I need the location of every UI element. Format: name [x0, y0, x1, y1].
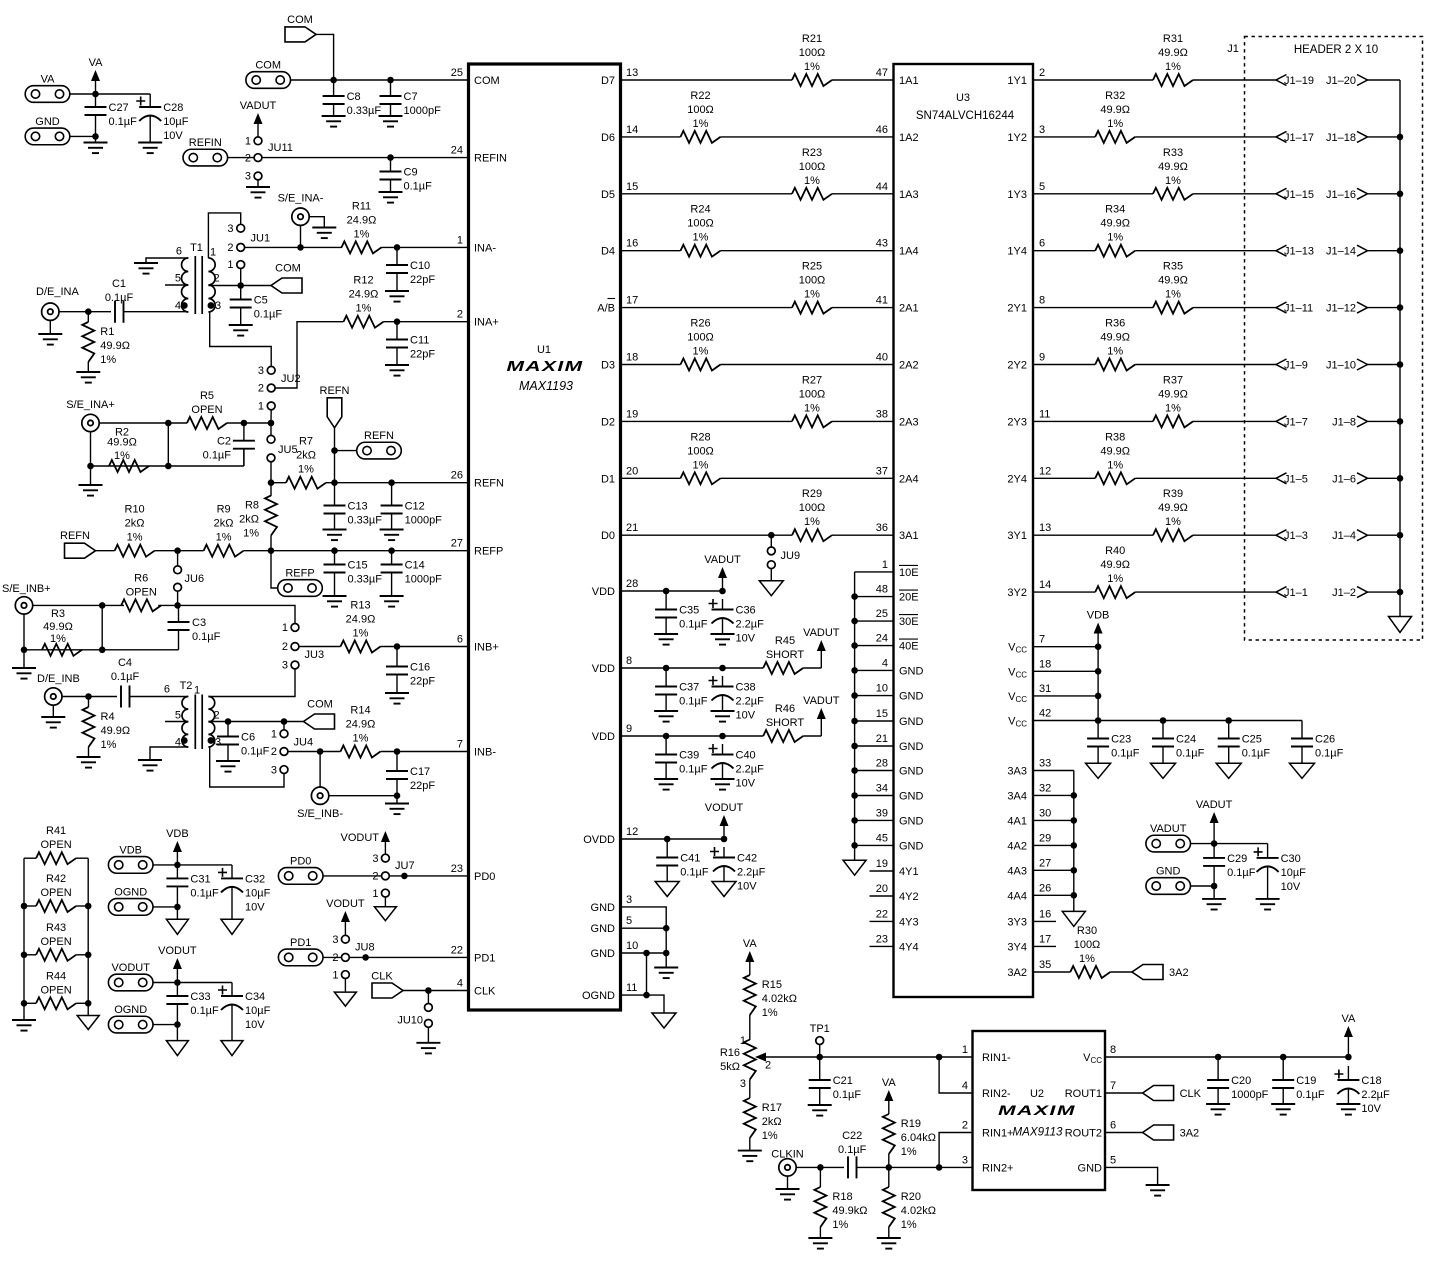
- svg-text:C1: C1: [112, 278, 126, 290]
- svg-text:7: 7: [1039, 634, 1045, 646]
- svg-text:0.1µF: 0.1µF: [203, 450, 232, 462]
- wire GND pad to C29 bottom: [1191, 885, 1215, 887]
- resistor R18: [814, 1187, 867, 1231]
- svg-text:49.9Ω: 49.9Ω: [1100, 218, 1130, 230]
- junction U3 bus row 9: [851, 792, 858, 799]
- svg-text:40: 40: [876, 352, 888, 364]
- svg-text:OPEN: OPEN: [191, 404, 222, 416]
- svg-text:VODUT: VODUT: [326, 898, 365, 910]
- svg-text:PD1: PD1: [290, 937, 311, 949]
- svg-text:C5: C5: [254, 295, 268, 307]
- svg-text:49.9Ω: 49.9Ω: [1158, 502, 1188, 514]
- svg-text:21: 21: [626, 522, 638, 534]
- pad PD1: [278, 937, 323, 966]
- svg-text:C13: C13: [348, 501, 368, 513]
- pad REFN: [357, 430, 402, 459]
- jumper JU6: [174, 566, 204, 591]
- wire JU1 pin 1 to T1 pin 2 node: [240, 269, 242, 286]
- svg-text:3: 3: [215, 300, 221, 312]
- svg-text:5: 5: [626, 915, 632, 927]
- svg-text:22pF: 22pF: [410, 349, 435, 361]
- wire U3 OE/GND bus: [854, 572, 856, 860]
- wire U3 Vcc stub y695.9: [1033, 695, 1098, 697]
- svg-text:PD1: PD1: [474, 952, 495, 964]
- wire U3 bus stub row 10: [855, 819, 894, 821]
- svg-text:J1–13: J1–13: [1284, 246, 1314, 258]
- wire U3 Vcc42 row: [1033, 720, 1302, 722]
- wire D/E_INB ground stub: [52, 705, 54, 717]
- svg-text:1%: 1%: [804, 289, 820, 301]
- svg-text:R27: R27: [802, 374, 822, 386]
- capacitor C11 22pF: [386, 322, 435, 365]
- wire U3 bus stub row 0: [855, 571, 894, 573]
- svg-text:VA: VA: [743, 938, 758, 950]
- svg-text:R34: R34: [1105, 204, 1125, 216]
- svg-text:1000pF: 1000pF: [1231, 1089, 1269, 1101]
- ground C40 ground: [711, 779, 735, 790]
- wire to S/E_INB+ ground: [23, 650, 25, 668]
- svg-text:4Y2: 4Y2: [899, 891, 919, 903]
- svg-text:J1–9: J1–9: [1284, 360, 1308, 372]
- wire 3Y4 stub: [1033, 945, 1056, 947]
- svg-text:R45: R45: [775, 635, 795, 647]
- IC U3 GND pin labels: [876, 657, 924, 852]
- capacitor C37 0.1uF: [655, 668, 708, 711]
- svg-text:5: 5: [175, 710, 181, 722]
- capacitor C9 0.1uF: [380, 158, 433, 193]
- svg-text:49.9Ω: 49.9Ω: [101, 725, 131, 737]
- svg-text:R44: R44: [46, 970, 66, 982]
- svg-text:CLK: CLK: [1180, 1088, 1202, 1100]
- svg-text:0.1µF: 0.1µF: [1111, 748, 1140, 760]
- svg-text:1%: 1%: [1107, 459, 1123, 471]
- svg-text:24: 24: [451, 145, 463, 157]
- junction R5 left: [165, 420, 172, 427]
- svg-text:44: 44: [876, 181, 888, 193]
- wire U3 1Y row 4 to R35: [1033, 307, 1153, 309]
- svg-text:R21: R21: [802, 33, 822, 45]
- ground C39 ground: [654, 779, 678, 790]
- resistor R1: [82, 322, 130, 366]
- svg-text:R31: R31: [1163, 33, 1183, 45]
- svg-text:49.9Ω: 49.9Ω: [1158, 161, 1188, 173]
- svg-text:1A3: 1A3: [899, 189, 919, 201]
- ground JU10 ground: [416, 1043, 440, 1054]
- svg-text:8: 8: [1039, 295, 1045, 307]
- svg-text:2kΩ: 2kΩ: [214, 518, 234, 530]
- svg-text:J1–15: J1–15: [1284, 189, 1314, 201]
- svg-text:100Ω: 100Ω: [799, 161, 826, 173]
- header J1 right arrow J1&#8211;16: [1326, 188, 1367, 201]
- junction REFIN/C9: [387, 154, 394, 161]
- svg-text:13: 13: [626, 67, 638, 79]
- resistor R26: [681, 318, 721, 371]
- jumper JU1: [227, 223, 270, 271]
- wire R7 to U1 pin 26: [326, 482, 469, 484]
- wire T1 pin 2 to COM flag: [208, 285, 271, 287]
- wire S/E_INA+ lower rail: [91, 432, 244, 466]
- jumper JU11: [245, 135, 293, 182]
- ground C38 ground: [711, 711, 735, 722]
- svg-text:0.1µF: 0.1µF: [404, 181, 433, 193]
- pad OGND (VDB): [108, 886, 153, 915]
- junction J1 rail row 5: [1397, 361, 1404, 368]
- wire U3 bus stub row 5: [855, 695, 894, 697]
- svg-text:C30: C30: [1281, 853, 1301, 865]
- svg-text:0.1µF: 0.1µF: [241, 746, 270, 758]
- ground C31 ground: [166, 919, 188, 934]
- svg-text:1%: 1%: [1165, 402, 1181, 414]
- svg-text:18: 18: [626, 352, 638, 364]
- wire ladder row R41 left: [24, 857, 36, 859]
- wire ladder row R42 right: [76, 905, 88, 907]
- power VODUT arrow above JU7: [341, 831, 390, 854]
- power VDB arrow: [166, 828, 189, 865]
- power VADUT arrow above JU11: [240, 100, 277, 137]
- svg-text:4: 4: [175, 300, 181, 312]
- junction JU10: [425, 987, 432, 994]
- resistor R20: [883, 1187, 936, 1231]
- svg-text:1%: 1%: [101, 739, 117, 751]
- junction J1 rail row 8: [1397, 532, 1404, 539]
- svg-text:C10: C10: [410, 260, 430, 272]
- junction 3A/4A bus y820.4: [1071, 817, 1078, 824]
- connector D/E_INB: [37, 673, 80, 705]
- wire OGND pad to C33 bottom: [153, 1024, 177, 1026]
- wire U3 4Y stub y871: [870, 870, 894, 872]
- svg-text:100Ω: 100Ω: [687, 332, 714, 344]
- svg-text:GND: GND: [591, 902, 616, 914]
- svg-text:10µF: 10µF: [245, 1005, 271, 1017]
- ground T1 pin 6 ground: [134, 263, 158, 274]
- svg-text:2: 2: [372, 871, 378, 883]
- wire CLK flag to U1 pin 4: [403, 990, 469, 992]
- wire U3 1Y row 8 to R39: [1033, 534, 1153, 536]
- connector S/E_INA+: [66, 399, 115, 432]
- svg-text:R39: R39: [1163, 488, 1183, 500]
- svg-text:JU4: JU4: [294, 737, 314, 749]
- capacitor C35 0.1uF: [655, 591, 708, 634]
- wire U2 GND to ground: [1105, 1167, 1158, 1185]
- svg-text:16: 16: [1039, 908, 1051, 920]
- wire U3 bus stub row 6: [855, 720, 894, 722]
- pad COM (top): [246, 60, 291, 89]
- capacitor C16 22pF: [386, 647, 435, 694]
- resistor R6: [121, 572, 161, 611]
- ground C20 ground: [1206, 1104, 1230, 1115]
- svg-text:GND: GND: [1156, 866, 1181, 878]
- svg-text:6: 6: [176, 246, 182, 258]
- wire GND10 to OGND: [646, 953, 648, 995]
- header J1 left arrow J1&#8211;13: [1276, 245, 1314, 258]
- wire T1 pin 1 up to JU1 pin 3: [208, 213, 240, 258]
- junction VDB rail y695.9: [1095, 693, 1102, 700]
- svg-text:GND: GND: [899, 766, 924, 778]
- wire T2 pin 2 to COM flag: [208, 721, 303, 723]
- svg-text:0.1µF: 0.1µF: [838, 1144, 867, 1156]
- svg-text:48: 48: [876, 584, 888, 596]
- svg-text:INA-: INA-: [474, 242, 496, 254]
- svg-text:45: 45: [876, 832, 888, 844]
- ground C7 ground: [379, 116, 403, 127]
- svg-text:VA: VA: [1341, 1013, 1356, 1025]
- svg-text:COM: COM: [307, 699, 333, 711]
- wire COM flag to COM rail: [316, 34, 334, 80]
- wire R35 to J1 pin: [1193, 307, 1276, 309]
- svg-text:C36: C36: [736, 605, 756, 617]
- wire R23 to U3: [832, 193, 894, 195]
- svg-text:C27: C27: [109, 102, 129, 114]
- wire J1 pin J1&#8211;8 to ground rail: [1368, 420, 1401, 422]
- svg-text:4.02kΩ: 4.02kΩ: [901, 1205, 936, 1217]
- svg-text:10V: 10V: [1361, 1103, 1381, 1115]
- junction C38: [719, 665, 726, 672]
- jumper JU7: [372, 853, 414, 900]
- svg-text:2kΩ: 2kΩ: [125, 518, 145, 530]
- svg-text:100Ω: 100Ω: [1074, 939, 1101, 951]
- svg-text:R26: R26: [690, 318, 710, 330]
- junction JU2-JU5 node: [268, 420, 275, 427]
- svg-text:25: 25: [451, 67, 463, 79]
- capacitor C34 10uF: [218, 983, 271, 1041]
- junction INB+/C16: [394, 643, 401, 650]
- net flag CLK (U1): [371, 971, 403, 999]
- wire J1 pin J1&#8211;20 to ground rail: [1368, 79, 1401, 81]
- ground C24 ground: [1151, 763, 1176, 778]
- svg-text:1A2: 1A2: [899, 132, 919, 144]
- ground C9 ground: [379, 192, 403, 203]
- wire node to JU5: [270, 423, 272, 435]
- IC U2 left pin labels: [962, 1044, 1014, 1174]
- svg-text:1: 1: [258, 401, 264, 413]
- capacitor C2 0.1uF: [233, 423, 255, 466]
- svg-text:10: 10: [626, 940, 638, 952]
- svg-text:C35: C35: [679, 605, 699, 617]
- wire 3A2 to R30: [1033, 971, 1070, 973]
- svg-text:C39: C39: [679, 750, 699, 762]
- svg-text:GND: GND: [899, 691, 924, 703]
- svg-text:1%: 1%: [353, 733, 369, 745]
- svg-text:RIN1+: RIN1+: [982, 1128, 1014, 1140]
- svg-text:D/E_INA: D/E_INA: [36, 286, 79, 298]
- header J1 left arrow J1&#8211;5: [1276, 473, 1308, 486]
- svg-text:C11: C11: [410, 335, 429, 347]
- svg-text:C21: C21: [833, 1075, 853, 1087]
- svg-text:GND: GND: [591, 923, 616, 935]
- svg-text:100Ω: 100Ω: [687, 218, 714, 230]
- svg-text:10V: 10V: [245, 901, 265, 913]
- svg-text:D6: D6: [601, 132, 615, 144]
- svg-text:J1–1: J1–1: [1284, 587, 1308, 599]
- svg-text:1A1: 1A1: [899, 75, 919, 87]
- svg-text:0.1µF: 0.1µF: [1176, 748, 1205, 760]
- svg-text:4: 4: [962, 1080, 968, 1092]
- ground C26 ground: [1290, 763, 1315, 778]
- junction 3A/4A bus y845.4: [1071, 842, 1078, 849]
- wire R6 to JU3: [158, 605, 295, 623]
- svg-text:J1–8: J1–8: [1332, 416, 1356, 428]
- header J1 right arrow J1&#8211;14: [1326, 245, 1367, 258]
- svg-text:VDB: VDB: [119, 844, 142, 856]
- svg-text:C6: C6: [241, 732, 255, 744]
- junction JU6 top: [174, 547, 181, 554]
- svg-text:3: 3: [740, 1078, 746, 1090]
- svg-text:30E: 30E: [899, 616, 919, 628]
- svg-text:49.9Ω: 49.9Ω: [43, 621, 73, 633]
- svg-text:1Y4: 1Y4: [1007, 246, 1027, 258]
- svg-text:2: 2: [271, 746, 277, 758]
- ground R1 ground: [76, 372, 100, 383]
- svg-text:2.2µF: 2.2µF: [736, 764, 765, 776]
- svg-text:J1: J1: [1227, 43, 1239, 55]
- svg-text:4A4: 4A4: [1007, 890, 1027, 902]
- svg-text:C2: C2: [217, 436, 231, 448]
- wire VODUT pad to C33: [153, 982, 232, 984]
- svg-text:7: 7: [1110, 1080, 1116, 1092]
- resistor R39: [1153, 488, 1193, 541]
- capacitor C19 0.1uF: [1272, 1057, 1325, 1104]
- svg-text:0.33µF: 0.33µF: [348, 574, 383, 586]
- svg-text:MAXIM: MAXIM: [507, 358, 584, 375]
- junction C25: [1225, 717, 1232, 724]
- svg-text:3Y3: 3Y3: [1007, 916, 1027, 928]
- svg-text:CLKIN: CLKIN: [771, 1149, 803, 1161]
- pad PD0: [278, 855, 323, 884]
- svg-text:3Y1: 3Y1: [1007, 530, 1027, 542]
- resistor R10: [115, 504, 155, 557]
- svg-text:D0: D0: [601, 530, 615, 542]
- svg-text:1%: 1%: [693, 459, 709, 471]
- svg-text:R16: R16: [720, 1047, 740, 1059]
- wire ROUT1 to CLK flag: [1105, 1092, 1143, 1094]
- svg-text:49.9Ω: 49.9Ω: [100, 340, 130, 352]
- svg-text:C17: C17: [410, 766, 430, 778]
- svg-text:SHORT: SHORT: [766, 717, 805, 729]
- svg-text:OPEN: OPEN: [41, 887, 72, 899]
- wire JU11 pin 3 to ground: [257, 180, 259, 187]
- svg-text:0.1µF: 0.1µF: [105, 292, 134, 304]
- wire R28 to U3: [721, 477, 894, 479]
- wire C2 bottom to rail: [243, 449, 245, 466]
- svg-text:2kΩ: 2kΩ: [239, 514, 259, 526]
- svg-text:1: 1: [962, 1044, 968, 1056]
- wire R22 to U3: [721, 136, 894, 138]
- wire U3 bus stub row 11: [855, 844, 894, 846]
- svg-text:2A2: 2A2: [899, 360, 919, 372]
- wire R9 to U1 pin 27: [244, 550, 469, 552]
- wire T1 pin 3 to JU2 pin 3: [210, 312, 272, 366]
- svg-text:1000pF: 1000pF: [405, 574, 443, 586]
- wire OGND stub: [621, 995, 665, 1013]
- wire U3 1Y row 5 to R36: [1033, 364, 1095, 366]
- svg-text:R17: R17: [762, 1102, 782, 1114]
- svg-text:S/E_INB-: S/E_INB-: [297, 808, 343, 820]
- junction REFN/C13: [331, 479, 338, 486]
- junction ladder left R44: [21, 1000, 28, 1007]
- wire U1 D-pin row 0 to R21: [621, 79, 793, 81]
- capacitor C1 0.1uF: [105, 278, 134, 323]
- svg-text:R13: R13: [350, 600, 370, 612]
- svg-text:46: 46: [876, 124, 888, 136]
- junction J1 rail row 9: [1397, 589, 1404, 596]
- svg-text:J1–6: J1–6: [1332, 473, 1356, 485]
- svg-text:R32: R32: [1105, 90, 1125, 102]
- svg-text:OPEN: OPEN: [41, 936, 72, 948]
- wire RIN2- stub: [939, 1057, 972, 1093]
- ground U3 3A/4A bus ground: [1062, 911, 1085, 926]
- svg-text:S/E_INA+: S/E_INA+: [66, 399, 115, 411]
- svg-text:4A3: 4A3: [1007, 865, 1027, 877]
- wire VDD9 row: [621, 735, 764, 737]
- svg-text:R9: R9: [217, 504, 231, 516]
- junction INB-/C17: [394, 748, 401, 755]
- svg-text:1%: 1%: [693, 232, 709, 244]
- svg-text:J1–4: J1–4: [1332, 530, 1356, 542]
- capacitor C40 2.2uF: [709, 744, 765, 790]
- svg-text:3: 3: [258, 365, 264, 377]
- capacitor C13 0.33uF: [324, 483, 383, 530]
- capacitor C12 1000pF: [381, 483, 443, 530]
- junction U3 bus row 2: [851, 618, 858, 625]
- ground ladder right ground: [77, 1016, 99, 1030]
- wire U3 1Y row 0 to R31: [1033, 79, 1153, 81]
- header J1 right arrow J1&#8211;6: [1332, 473, 1367, 486]
- svg-text:23: 23: [876, 933, 888, 945]
- svg-text:REFP: REFP: [474, 546, 503, 558]
- svg-text:VADUT: VADUT: [240, 100, 277, 112]
- junction VDB rail y646.7: [1095, 643, 1102, 650]
- svg-text:0.1µF: 0.1µF: [680, 867, 709, 879]
- capacitor C27 0.1uF: [85, 94, 138, 136]
- svg-text:2.2µF: 2.2µF: [736, 696, 765, 708]
- wire S/E_INA+ row: [99, 422, 187, 424]
- ground C33 ground: [166, 1041, 188, 1056]
- svg-text:R7: R7: [299, 436, 313, 448]
- wire U3 bus stub row 7: [855, 745, 894, 747]
- resistor R22: [681, 90, 721, 143]
- svg-text:D1: D1: [601, 473, 615, 485]
- junction REFP/C15: [331, 547, 338, 554]
- svg-text:24.9Ω: 24.9Ω: [347, 214, 377, 226]
- svg-text:C18: C18: [1361, 1075, 1381, 1087]
- resistor R37: [1153, 374, 1193, 427]
- svg-text:C14: C14: [405, 560, 425, 572]
- wire R1 top: [87, 312, 89, 322]
- wire R4 bottom to ground: [88, 747, 90, 757]
- svg-text:32: 32: [1039, 782, 1051, 794]
- svg-text:1%: 1%: [298, 464, 314, 476]
- junction U3 bus row 1: [851, 593, 858, 600]
- svg-text:R5: R5: [200, 390, 214, 402]
- svg-text:47: 47: [876, 67, 888, 79]
- junction D/E_INB/R4: [85, 693, 92, 700]
- svg-text:22: 22: [876, 908, 888, 920]
- jumper JU5: [267, 435, 297, 461]
- wire U3 bus stub row 9: [855, 795, 894, 797]
- test point TP1: [810, 1023, 830, 1057]
- svg-text:2A3: 2A3: [899, 416, 919, 428]
- header J1 left arrow J1&#8211;19: [1276, 75, 1314, 88]
- junction VDB rail y671.3: [1095, 668, 1102, 675]
- IC U3 right Y pin labels: [1007, 67, 1051, 599]
- resistor R28: [681, 431, 721, 484]
- svg-text:0.1µF: 0.1µF: [190, 1005, 219, 1017]
- junction R8 top: [268, 479, 275, 486]
- svg-text:26: 26: [1039, 882, 1051, 894]
- wire U3 1Y row 2 to R33: [1033, 193, 1153, 195]
- svg-text:10V: 10V: [163, 130, 183, 142]
- junction VDB rail y720: [1095, 717, 1102, 724]
